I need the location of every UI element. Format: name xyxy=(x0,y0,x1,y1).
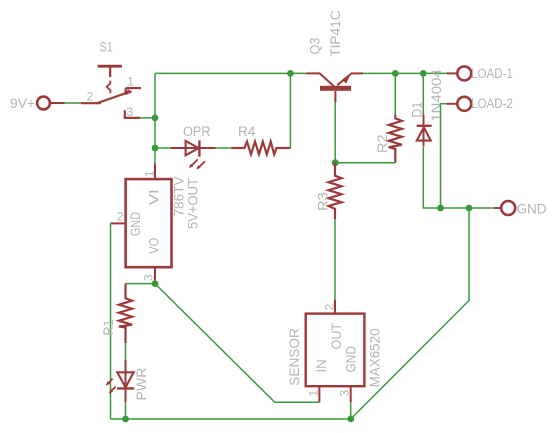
svg-text:GND: GND xyxy=(517,202,547,217)
svg-text:1: 1 xyxy=(127,74,134,88)
svg-text:5V+OUT: 5V+OUT xyxy=(186,178,201,229)
regulator pin 3 lead xyxy=(154,268,156,284)
wire R2 bottom to base line xyxy=(335,162,395,164)
junction GND rail xyxy=(466,205,473,212)
wire S1 pin3 to main vertical xyxy=(140,117,155,119)
wire PWR LED to bottom rail xyxy=(125,402,127,419)
pin 9V+ xyxy=(37,97,64,110)
sensor pin 2 lead xyxy=(334,300,336,314)
wire main vertical xyxy=(154,73,156,164)
transistor Q3 xyxy=(306,73,363,102)
regulator pin 1 lead xyxy=(154,164,156,180)
svg-text:VO: VO xyxy=(146,238,161,254)
LED OPR xyxy=(170,141,215,167)
wire R1 to PWR LED xyxy=(125,343,127,360)
svg-text:OUT: OUT xyxy=(329,323,344,349)
junction sensor pin3 xyxy=(347,416,354,423)
svg-text:R3: R3 xyxy=(315,192,330,211)
sensor pin 1 lead xyxy=(318,387,320,403)
svg-text:LOAD-1: LOAD-1 xyxy=(471,66,513,81)
sensor U2 box xyxy=(306,314,365,387)
svg-text:3: 3 xyxy=(142,274,156,281)
resistor R3 xyxy=(328,163,341,220)
wire R3 to sensor pin2 xyxy=(334,219,336,300)
junction D1 top xyxy=(420,70,427,77)
resistor R1 xyxy=(119,284,132,343)
wire junction to OPR anode xyxy=(155,147,170,149)
svg-text:SENSOR: SENSOR xyxy=(287,328,302,386)
svg-text:GND: GND xyxy=(344,346,359,373)
wire bottom rail xyxy=(111,418,351,420)
junction PWR bottom xyxy=(122,416,129,423)
svg-text:9V+: 9V+ xyxy=(10,96,35,111)
svg-text:R2: R2 xyxy=(375,134,390,153)
junction OPR row xyxy=(152,145,159,152)
resistor R2 xyxy=(389,115,402,163)
svg-text:IN: IN xyxy=(314,359,329,372)
svg-text:2: 2 xyxy=(87,89,94,103)
wire D1 top xyxy=(422,73,424,114)
svg-text:D1: D1 xyxy=(409,102,424,118)
wire R4 right vertical xyxy=(289,73,291,148)
svg-text:R1: R1 xyxy=(101,320,116,336)
junction top rail R4 xyxy=(287,70,294,77)
svg-text:2: 2 xyxy=(322,304,336,311)
svg-text:786TV: 786TV xyxy=(171,177,186,217)
svg-text:3: 3 xyxy=(127,105,134,119)
svg-text:TIP41C: TIP41C xyxy=(328,10,343,57)
pin LOAD-1 xyxy=(447,66,472,80)
svg-text:1N4004: 1N4004 xyxy=(429,69,444,122)
wire OPR to R4 xyxy=(216,147,231,149)
junction regulator pin 3 xyxy=(152,280,159,287)
wire regulator pin3 to R1 xyxy=(126,283,156,285)
diode D1 xyxy=(417,115,432,147)
svg-text:2: 2 xyxy=(117,210,124,224)
resistor R4 xyxy=(231,142,290,155)
svg-text:PWR: PWR xyxy=(134,367,149,400)
wire 9V+ to S1 pin 2 xyxy=(65,102,82,104)
junction R2 top xyxy=(392,70,399,77)
svg-text:OPR: OPR xyxy=(183,124,211,139)
wire sensor pin3 to junction xyxy=(350,402,352,419)
regulator pin 2 lead xyxy=(111,222,126,224)
switch S1 xyxy=(81,66,141,118)
LED PWR xyxy=(108,360,135,403)
wire top rail xyxy=(155,72,306,74)
wire emitter rail to LOAD-1 xyxy=(363,72,447,74)
wire R2 top xyxy=(394,73,396,114)
junction LOAD-2 bottom xyxy=(437,205,444,212)
svg-text:3: 3 xyxy=(337,390,351,397)
voltage regulator U1 box xyxy=(126,179,172,267)
junction base R2 R3 xyxy=(332,159,339,166)
wire regulator pin2 down left side xyxy=(110,223,112,419)
wire D1 bottom xyxy=(423,147,494,208)
svg-text:MAX6520: MAX6520 xyxy=(368,328,383,387)
junction S1 pin3 xyxy=(152,115,159,122)
wire base vertical xyxy=(334,102,336,162)
svg-text:VI: VI xyxy=(146,189,161,205)
svg-text:GND: GND xyxy=(128,212,143,236)
pin GND xyxy=(495,201,516,215)
svg-text:R4: R4 xyxy=(238,124,256,139)
svg-text:Q3: Q3 xyxy=(307,38,322,55)
pin LOAD-2 xyxy=(447,97,472,111)
wire LOAD-2 to bottom rail xyxy=(441,104,447,208)
wire diagonal regulator pin3 to sensor pin1 xyxy=(155,284,319,403)
wire GND junction down and diagonal to sensor xyxy=(351,208,469,419)
svg-text:1: 1 xyxy=(307,390,321,397)
svg-text:S1: S1 xyxy=(99,40,113,55)
sensor pin 3 lead xyxy=(350,387,352,403)
svg-text:1: 1 xyxy=(142,170,156,177)
svg-text:LOAD-2: LOAD-2 xyxy=(471,96,513,111)
